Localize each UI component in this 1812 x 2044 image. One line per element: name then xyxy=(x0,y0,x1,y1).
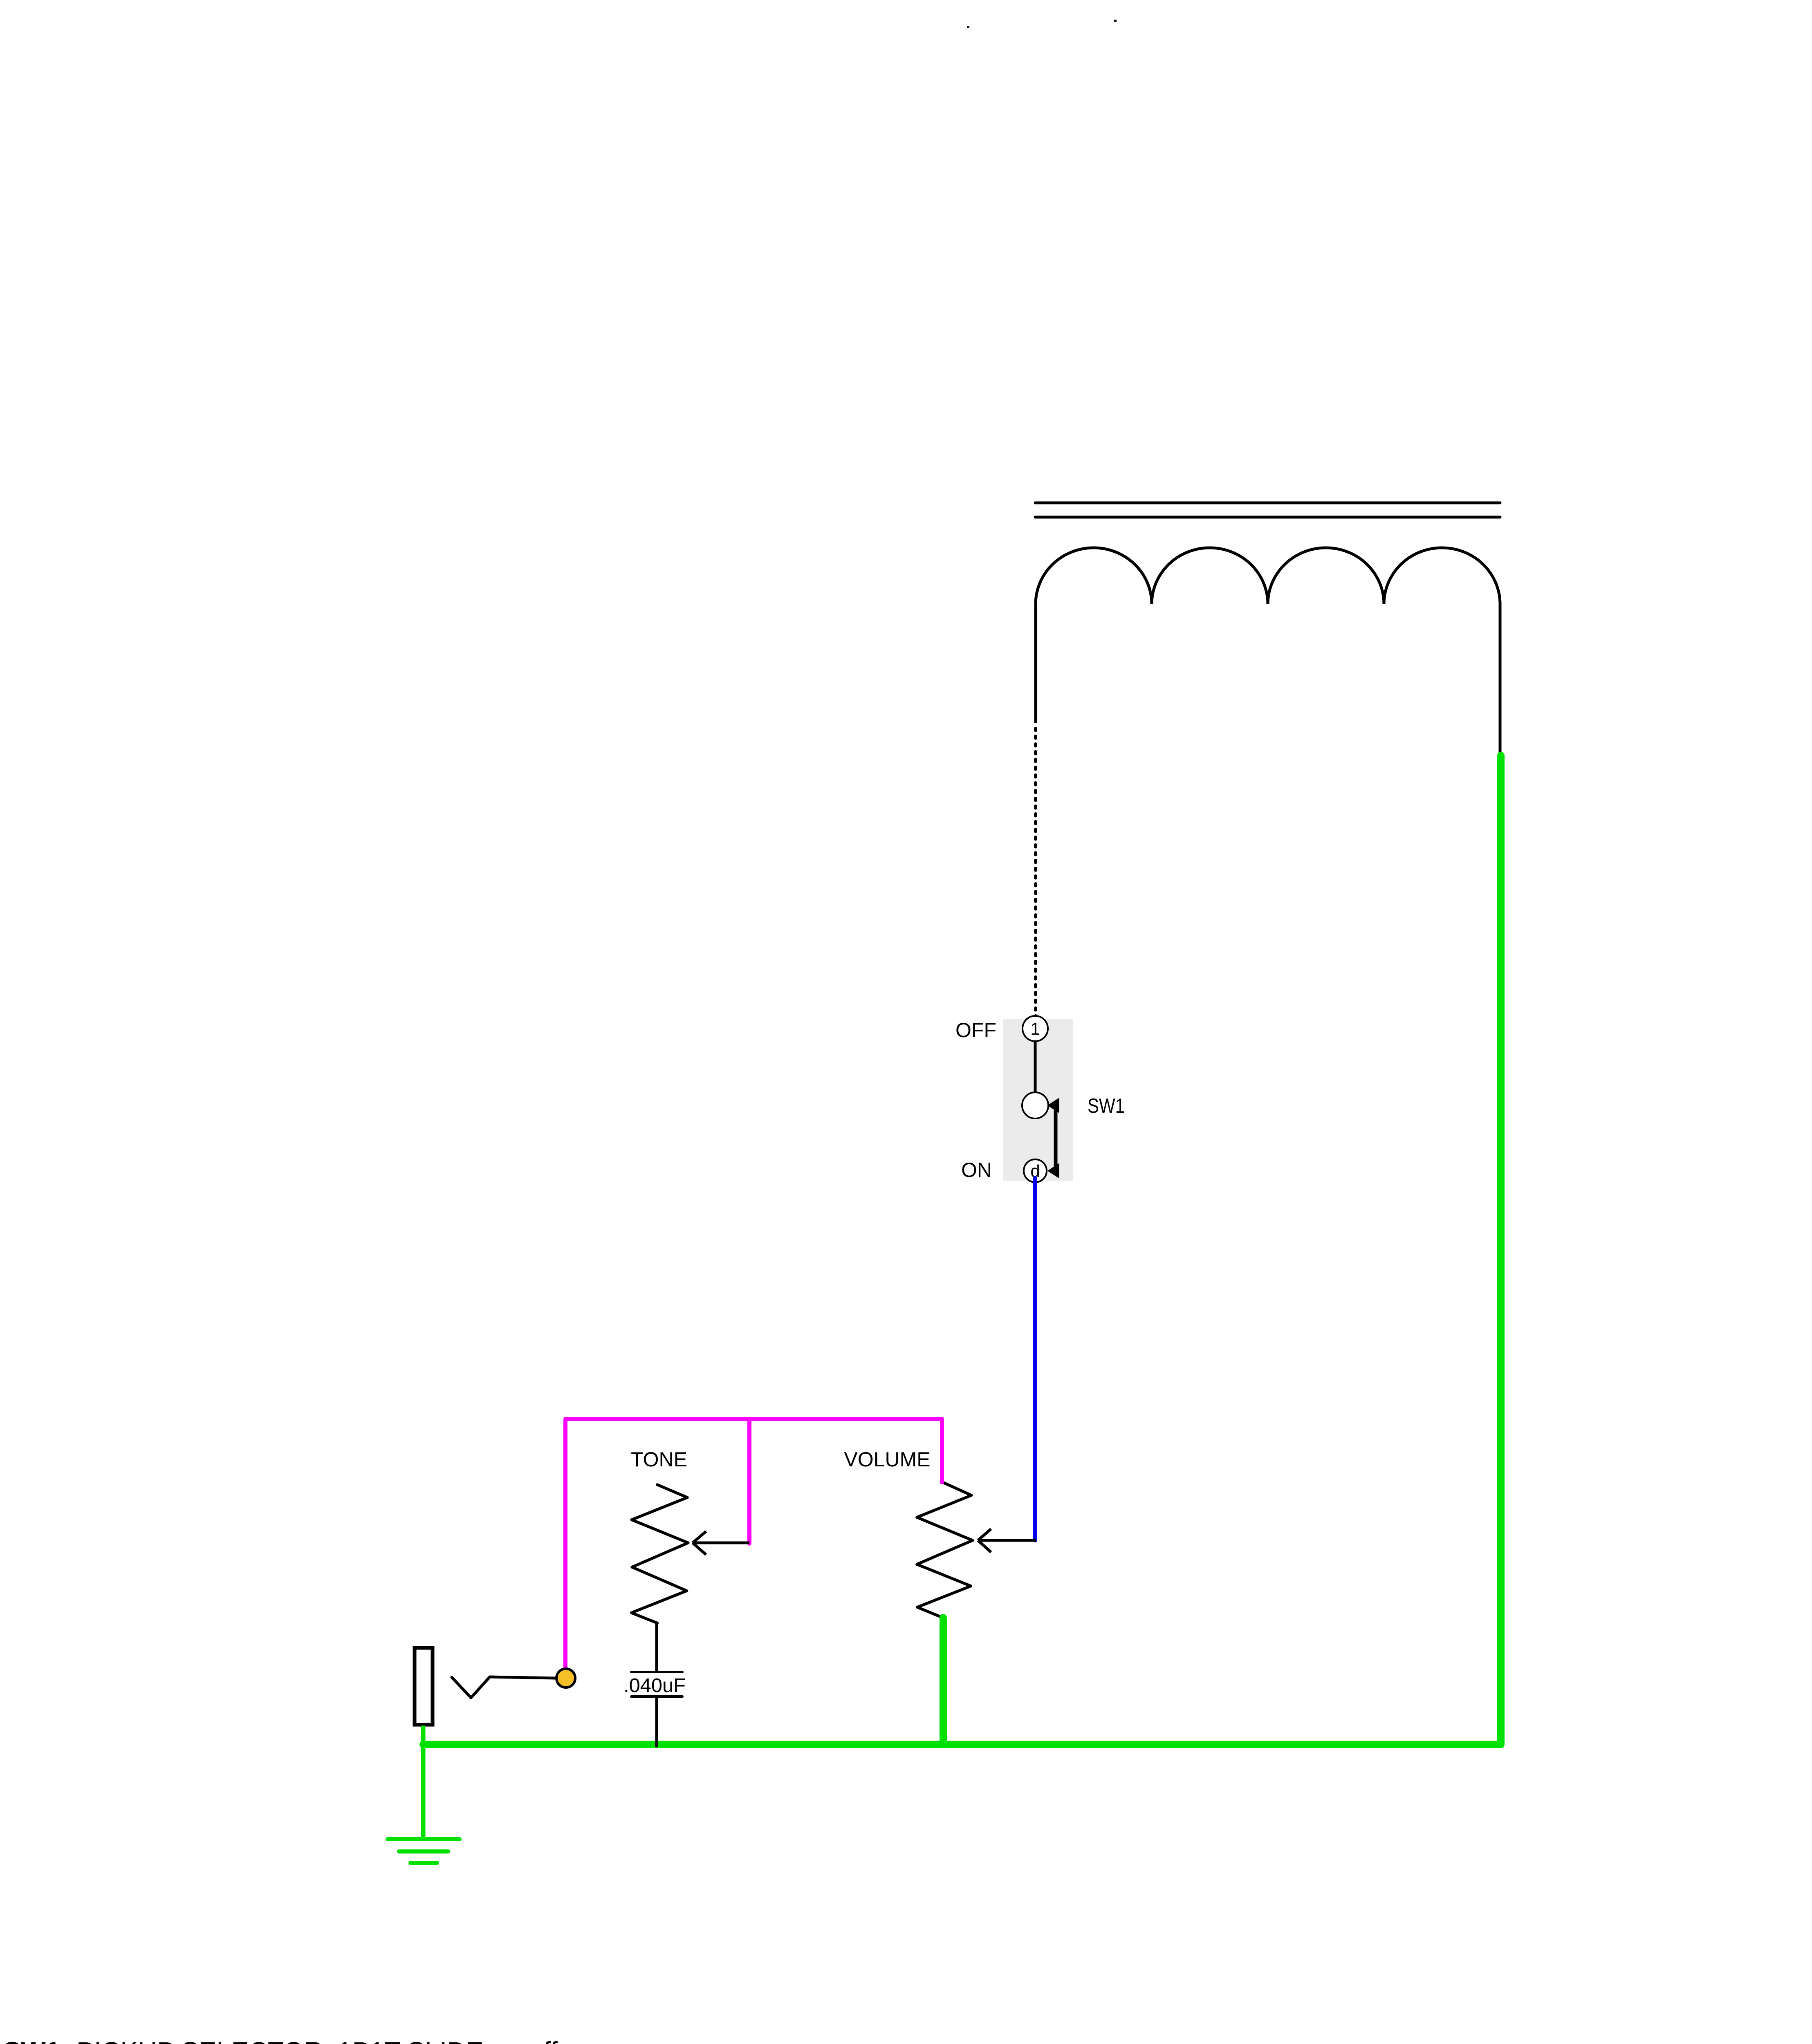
pickup hot lead (solid part) xyxy=(1034,603,1037,723)
capacitor C1 bottom lead xyxy=(655,1697,658,1746)
registration dot left xyxy=(967,26,969,28)
green ground wire: pickup down right side and bus to jack xyxy=(423,755,1501,1744)
pickup ground lead (black part) xyxy=(1499,603,1502,757)
ground symbol xyxy=(388,1839,460,1863)
output jack sleeve xyxy=(415,1648,433,1725)
tone wiper arrow xyxy=(693,1531,749,1555)
svg-text:TONE: TONE xyxy=(631,1448,687,1471)
registration dot right xyxy=(1114,20,1117,22)
svg-text:SW1: SW1 xyxy=(1088,1094,1125,1117)
potentiometer VOLUME xyxy=(917,1482,973,1618)
output jack tip contact xyxy=(452,1677,555,1698)
jack tip node (orange) xyxy=(556,1669,575,1688)
blue wire SW1 to volume wiper xyxy=(1033,1178,1037,1540)
volume wiper arrow xyxy=(978,1529,1036,1552)
svg-text:.040uF: .040uF xyxy=(623,1675,686,1697)
capacitor C1 plates xyxy=(631,1672,682,1697)
SW1 lever xyxy=(1047,1098,1059,1179)
svg-text:VOLUME: VOLUME xyxy=(844,1448,930,1471)
SW1 terminal d xyxy=(1024,1159,1047,1182)
pickup hot lead (dashed) to SW1 xyxy=(1034,728,1037,1017)
capacitor C1 top lead xyxy=(655,1622,658,1672)
pickup P1 top plate line 1 xyxy=(1035,502,1500,504)
SW1 link wire terminal1 to pole xyxy=(1034,1040,1037,1094)
svg-text:1: 1 xyxy=(1030,1019,1040,1038)
green wire volume to bus xyxy=(940,1618,947,1743)
svg-text:OFF: OFF xyxy=(955,1019,996,1042)
pickup P1 coil xyxy=(1036,548,1500,604)
magenta wire: jack tip up, across, to tone wiper and volume top xyxy=(565,1419,942,1678)
switch SW1 body xyxy=(1003,1019,1073,1181)
potentiometer TONE xyxy=(631,1485,688,1623)
SW1 pole xyxy=(1022,1092,1048,1118)
svg-text:SW1: PICKUP SELECTOR, 1P1T SLI: SW1: PICKUP SELECTOR, 1P1T SLIDE on-off xyxy=(3,2036,558,2044)
svg-text:ON: ON xyxy=(961,1159,992,1181)
pickup P1 top plate line 2 xyxy=(1035,516,1500,519)
green wire jack to ground xyxy=(421,1726,426,1839)
SW1 terminal 1 xyxy=(1023,1016,1048,1041)
